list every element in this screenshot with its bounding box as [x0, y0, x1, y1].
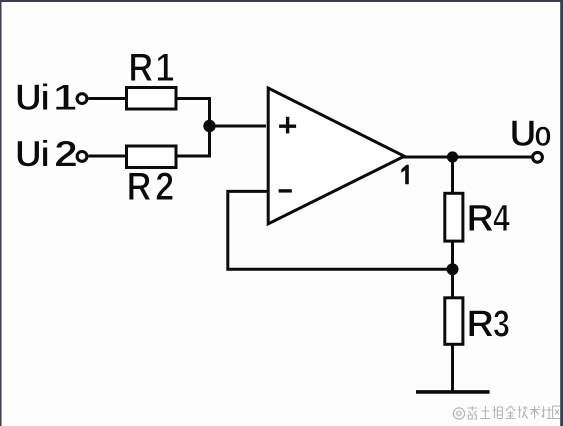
terminal Ui2 — [77, 152, 87, 162]
wire R2 to node A — [178, 126, 210, 156]
resistor R2 — [127, 146, 177, 209]
feedback wire node C to op-amp inverting input — [228, 191, 453, 269]
svg-text:2: 2 — [155, 164, 174, 209]
ground — [416, 390, 490, 394]
op-amp output pin 1 label — [401, 165, 409, 185]
wire node C to R3 — [451, 269, 454, 298]
svg-text:4: 4 — [493, 198, 510, 240]
svg-text:2: 2 — [54, 134, 78, 175]
watermark text strokes — [467, 406, 561, 419]
node C junction dot — [447, 263, 459, 275]
op-amp minus input marking — [279, 189, 292, 192]
label Ui2 — [15, 134, 78, 175]
terminal Ui1 — [77, 94, 87, 104]
op-amp plus input marking — [279, 117, 296, 134]
svg-text:3: 3 — [493, 303, 510, 345]
svg-text:i: i — [40, 77, 50, 118]
node B junction dot on output — [447, 151, 458, 162]
svg-text:R: R — [128, 45, 153, 90]
wire R1 to node A — [178, 99, 210, 127]
wire node A to op-amp noninverting input — [210, 125, 267, 128]
svg-text:i: i — [40, 134, 50, 175]
resistor R1 — [127, 45, 177, 109]
label Ui1 — [15, 77, 77, 118]
node A junction dot — [203, 120, 215, 132]
svg-text:R: R — [467, 198, 494, 240]
terminal Uo — [533, 152, 543, 162]
svg-text:1: 1 — [53, 77, 77, 118]
svg-text:U: U — [15, 77, 42, 118]
label Uo — [510, 112, 552, 154]
watermark @ sign — [453, 408, 464, 419]
op-amp U1 — [268, 88, 404, 224]
resistor R3 — [445, 298, 510, 346]
resistor R4 — [445, 193, 510, 241]
svg-text:1: 1 — [155, 45, 174, 90]
svg-text:U: U — [510, 113, 537, 154]
svg-text:R: R — [127, 164, 152, 209]
wire R3 to ground — [451, 344, 454, 392]
wire Ui1 to R1 — [88, 97, 126, 100]
svg-text:o: o — [534, 112, 551, 153]
wire Ui2 to R2 — [88, 155, 126, 158]
wire op-amp output to terminal Uo — [403, 156, 532, 159]
wire R4 to node C — [451, 241, 454, 269]
wire node B to R4 — [451, 157, 454, 193]
svg-text:U: U — [15, 134, 42, 175]
svg-text:R: R — [467, 304, 494, 346]
